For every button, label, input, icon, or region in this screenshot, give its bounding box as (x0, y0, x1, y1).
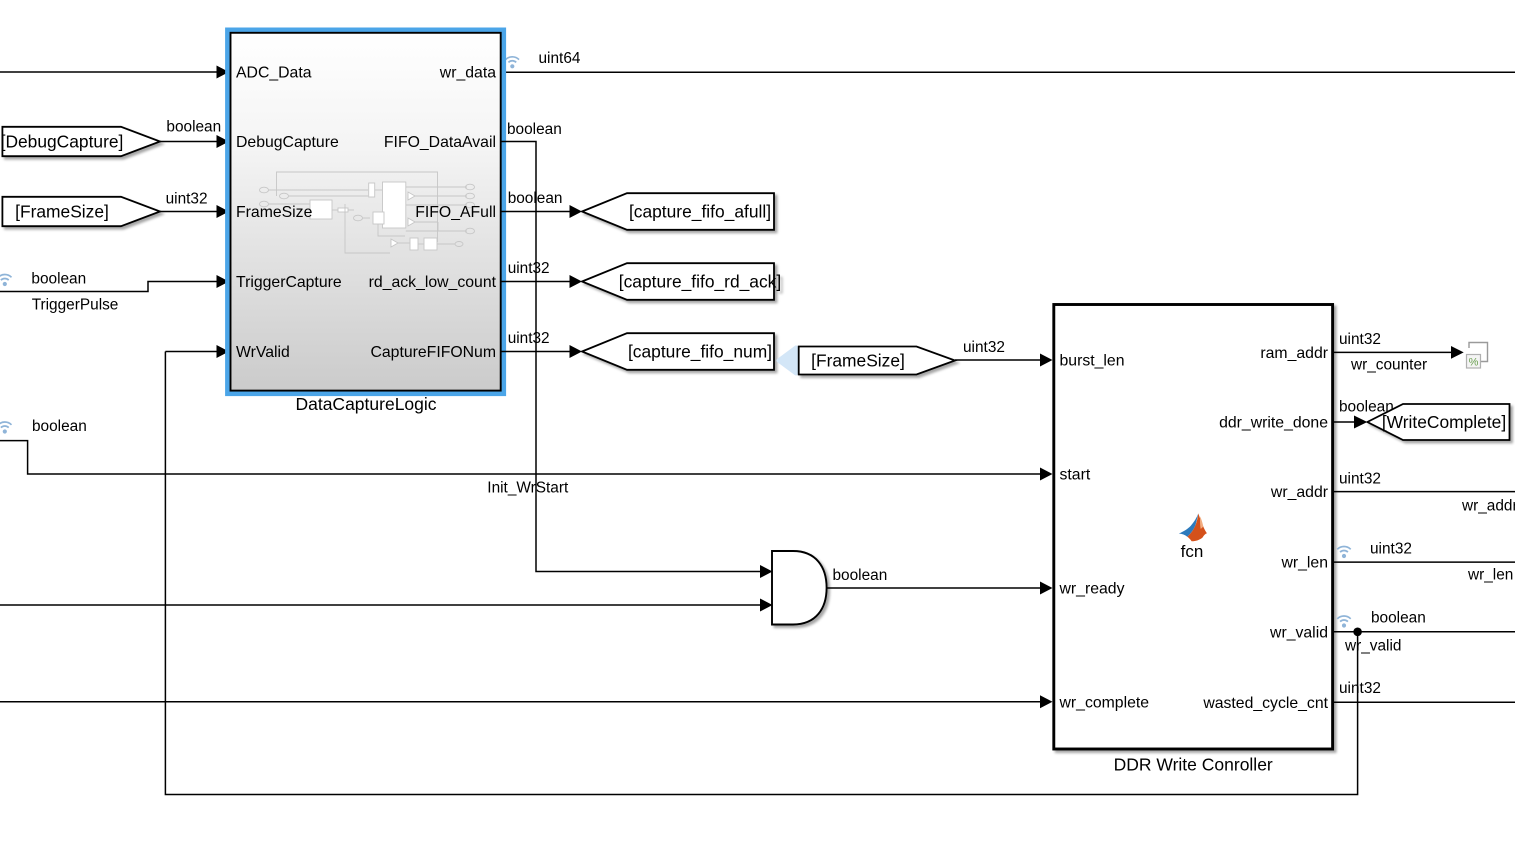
svg-text:uint32: uint32 (508, 260, 550, 277)
junction wr_valid (1353, 628, 1362, 637)
svg-text:[capture_fifo_afull]: [capture_fifo_afull] (629, 202, 771, 222)
goto tag [capture_fifo_rd_ack] (582, 263, 781, 300)
from tag [FrameSize] left (2, 197, 160, 226)
svg-text:[FrameSize]: [FrameSize] (811, 351, 905, 371)
svg-text:wr_counter: wr_counter (1350, 356, 1427, 373)
highlight badge left of FrameSize from tag (779, 348, 797, 374)
svg-text:Init_WrStart: Init_WrStart (487, 480, 569, 497)
wire DebugCapture (160, 135, 229, 148)
svg-text:boolean: boolean (833, 567, 888, 584)
and gate (Logical Operator) (772, 551, 827, 625)
svg-text:boolean: boolean (507, 121, 562, 138)
svg-text:wr_valid: wr_valid (1269, 624, 1328, 641)
svg-text:burst_len: burst_len (1060, 353, 1125, 370)
svg-text:uint32: uint32 (166, 191, 208, 208)
wire start (Init_WrStart) (0, 441, 1053, 481)
goto tag [capture_fifo_num] (582, 333, 774, 370)
wireless icon wr_valid (1337, 616, 1350, 628)
svg-text:ddr_write_done: ddr_write_done (1219, 415, 1328, 432)
wire TriggerCapture (0, 275, 229, 292)
block DataCaptureLogic (227, 30, 503, 394)
svg-text:uint32: uint32 (1339, 331, 1381, 348)
svg-text:[capture_fifo_rd_ack]: [capture_fifo_rd_ack] (619, 272, 781, 292)
svg-text:wasted_cycle_cnt: wasted_cycle_cnt (1202, 695, 1328, 712)
wire rd_ack_low_count (501, 275, 582, 288)
svg-text:rd_ack_low_count: rd_ack_low_count (369, 274, 497, 291)
wire ddr_write_done (1334, 416, 1367, 429)
svg-text:uint32: uint32 (508, 330, 550, 347)
svg-text:wr_len: wr_len (1280, 555, 1328, 572)
wire ram_addr to commented block (1334, 346, 1464, 359)
wire ADC_Data input (0, 66, 229, 79)
wireless icon wr_data (506, 57, 519, 69)
svg-text:boolean: boolean (508, 190, 563, 207)
svg-text:ADC_Data: ADC_Data (236, 65, 312, 82)
wire wr_valid out (1334, 631, 1515, 633)
wire wr_len out (1334, 561, 1515, 563)
wire wasted_cycle_cnt out (1334, 701, 1515, 703)
svg-text:boolean: boolean (32, 418, 87, 435)
svg-text:uint32: uint32 (1339, 471, 1381, 488)
wireless icon start (0, 422, 12, 434)
svg-text:boolean: boolean (31, 271, 86, 288)
svg-text:%: % (1469, 357, 1479, 369)
svg-text:wr_ready: wr_ready (1059, 581, 1125, 598)
wire wr_addr out (1334, 491, 1515, 493)
wire FrameSize (160, 205, 229, 218)
from tag [DebugCapture] (1, 127, 160, 156)
block DDR Write Controller (1054, 305, 1333, 750)
svg-text:wr_data: wr_data (439, 65, 496, 82)
svg-text:DataCaptureLogic: DataCaptureLogic (295, 394, 436, 414)
wire CaptureFIFONum (501, 345, 582, 358)
goto tag [WriteComplete] (1367, 404, 1509, 440)
svg-text:TriggerPulse: TriggerPulse (32, 297, 119, 314)
matlab fcn logo (1179, 513, 1207, 541)
svg-text:DDR Write Conroller: DDR Write Conroller (1114, 754, 1273, 774)
svg-text:TriggerCapture: TriggerCapture (236, 274, 342, 291)
svg-text:[capture_fifo_num]: [capture_fifo_num] (628, 342, 772, 362)
subsystem preview inside DataCaptureLogic (260, 172, 475, 253)
svg-text:fcn: fcn (1181, 542, 1204, 561)
svg-text:ram_addr: ram_addr (1260, 345, 1328, 362)
wire FIFO_DataAvail to AND gate (501, 142, 773, 579)
svg-text:WrValid: WrValid (236, 344, 290, 361)
svg-text:[WriteComplete]: [WriteComplete] (1382, 412, 1506, 432)
svg-text:uint32: uint32 (1370, 541, 1412, 558)
svg-text:FIFO_DataAvail: FIFO_DataAvail (384, 134, 496, 151)
wireless icon TriggerPulse (0, 275, 12, 287)
svg-text:start: start (1060, 467, 1091, 484)
wire wr_data output (uint64) (506, 71, 1515, 73)
svg-text:boolean: boolean (166, 119, 221, 136)
wire FIFO_AFull (501, 205, 582, 218)
wire AND lower input (0, 599, 773, 612)
svg-text:[FrameSize]: [FrameSize] (15, 202, 109, 222)
svg-text:uint32: uint32 (963, 339, 1005, 356)
wire AND output to wr_ready (827, 582, 1053, 595)
wire wr_complete (0, 695, 1053, 708)
svg-text:wr_complete: wr_complete (1059, 694, 1150, 711)
svg-text:CaptureFIFONum: CaptureFIFONum (370, 344, 496, 361)
svg-text:boolean: boolean (1371, 610, 1426, 627)
wire wr_valid feedback (165, 352, 1357, 795)
commented-out block icon (%) (1467, 343, 1488, 369)
svg-text:wr_len: wr_len (1467, 567, 1513, 584)
svg-text:FIFO_AFull: FIFO_AFull (415, 204, 496, 221)
from tag [FrameSize] middle (799, 347, 955, 375)
wire WrValid input (from feedback) (165, 345, 229, 358)
svg-text:[DebugCapture]: [DebugCapture] (1, 132, 124, 152)
wire burst_len (955, 354, 1053, 367)
svg-text:FrameSize: FrameSize (236, 204, 313, 221)
svg-text:uint32: uint32 (1339, 680, 1381, 697)
wireless icon wr_len (1337, 547, 1350, 559)
svg-text:wr_valid: wr_valid (1344, 638, 1401, 655)
goto tag [capture_fifo_afull] (582, 193, 774, 230)
svg-text:uint64: uint64 (539, 50, 581, 67)
svg-text:wr_addr: wr_addr (1461, 498, 1515, 515)
svg-text:wr_addr: wr_addr (1270, 484, 1328, 501)
svg-text:DebugCapture: DebugCapture (236, 134, 339, 151)
